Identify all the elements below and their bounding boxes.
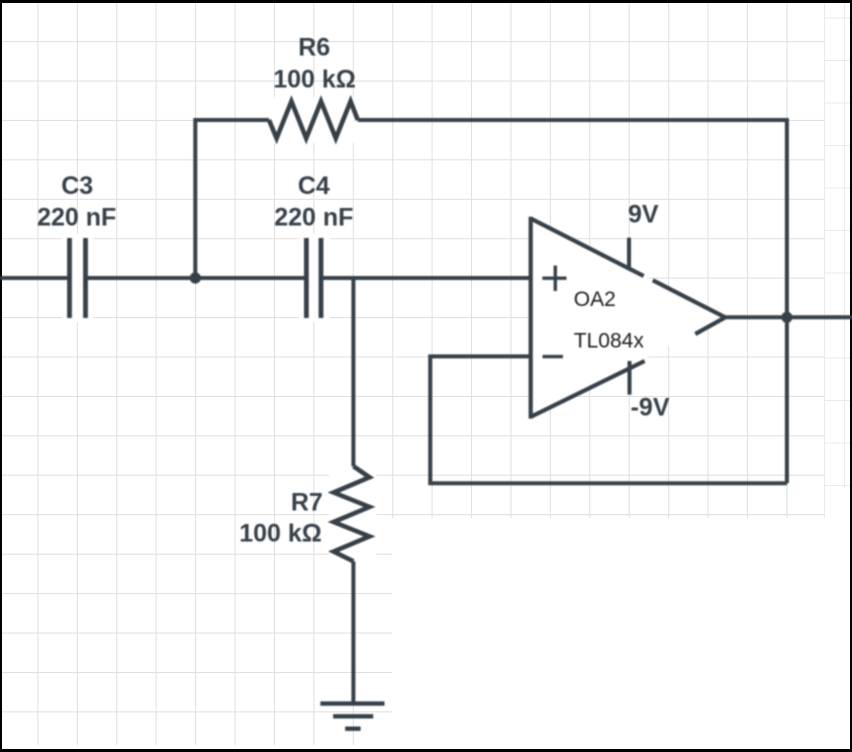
svg-text:100 kΩ: 100 kΩ — [239, 519, 322, 547]
svg-text:-9V: -9V — [631, 394, 670, 422]
svg-text:R7: R7 — [291, 488, 323, 516]
svg-text:220 nF: 220 nF — [274, 203, 353, 231]
svg-text:OA2: OA2 — [574, 288, 616, 311]
svg-text:100 kΩ: 100 kΩ — [273, 66, 356, 94]
svg-text:R6: R6 — [298, 33, 330, 61]
svg-text:TL084x: TL084x — [574, 330, 645, 353]
svg-text:9V: 9V — [628, 201, 659, 229]
svg-text:220 nF: 220 nF — [37, 203, 116, 231]
svg-text:C4: C4 — [298, 172, 330, 200]
svg-text:C3: C3 — [61, 172, 93, 200]
